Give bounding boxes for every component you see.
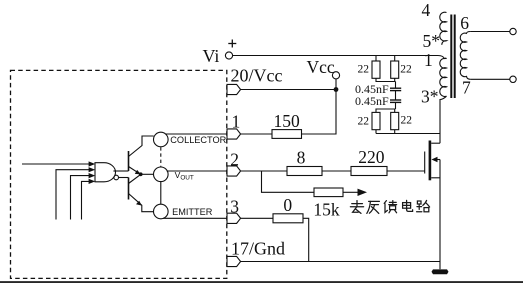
label 去反馈电路 (hand-drawn glyphs) (350, 200, 429, 213)
resistor 22 bottom-right (391, 112, 399, 129)
svg-text:5*: 5* (423, 31, 441, 51)
glyph 去 (350, 201, 363, 214)
glyph 电 (403, 200, 413, 211)
svg-text:8: 8 (297, 147, 306, 167)
terminal Vcc (332, 72, 339, 79)
resistor 0 (273, 214, 303, 223)
solid link vout-emitter (160, 182, 162, 205)
wire pin1 to 150 (241, 133, 272, 135)
wire R220 to gate (387, 170, 425, 172)
svg-text:3: 3 (230, 197, 239, 217)
wire drain up (439, 134, 441, 144)
MOSFET source tab (431, 177, 440, 179)
svg-text:0.45nF: 0.45nF (355, 94, 389, 108)
wire split above bottom pair (376, 109, 396, 112)
input arrow 1 (89, 161, 96, 166)
transformer T1 secondary winding (pins 6,7) (460, 32, 470, 80)
wire pin20 to Vcc node (241, 89, 336, 91)
pin 1 tag (227, 129, 241, 139)
wire secondary top (470, 31, 510, 33)
ground (432, 269, 449, 274)
svg-text:4: 4 (422, 0, 431, 20)
wire R8 to R220 (322, 170, 351, 172)
wire gate bubble output to Q2 base (119, 177, 129, 179)
MOSFET body arrow (431, 157, 437, 163)
wire emitter circle to pin3 (163, 217, 227, 219)
wire input 4 (82, 181, 90, 219)
pin 3 tag (227, 213, 241, 223)
wire stubs bottom (375, 130, 377, 134)
wire pin17 gnd rail (241, 261, 440, 263)
svg-text:Vcc: Vcc (307, 57, 335, 77)
wire source down to ground (439, 160, 441, 270)
wire Vcc drop (335, 79, 337, 90)
wire Vcc node down to 150 (302, 90, 337, 135)
svg-text:150: 150 (274, 111, 301, 131)
svg-text:2: 2 (230, 150, 239, 170)
svg-text:COLLECTOR: COLLECTOR (170, 135, 226, 145)
MOSFET drain tab (431, 142, 440, 144)
svg-text:7: 7 (462, 78, 471, 98)
transistor Q2 (129, 175, 154, 212)
wire to cap1 (395, 82, 397, 89)
terminal Vi (225, 52, 232, 59)
snubber: wire stubs top (375, 56, 377, 62)
wire Vi rail (233, 56, 445, 60)
capacitor C2 0.45nF (390, 99, 401, 101)
wire junction to VOUT circle (141, 173, 154, 175)
svg-text:22: 22 (358, 116, 370, 128)
feedback arrow (358, 189, 368, 196)
transformer core (450, 15, 452, 99)
EMITTER circle (154, 204, 169, 219)
wire snubber bottom rail (376, 133, 440, 135)
wire pin3 to R0 (241, 217, 273, 219)
svg-text:0: 0 (283, 195, 292, 215)
svg-text:22: 22 (401, 114, 413, 126)
glyph 路 (417, 200, 430, 211)
bottom page rule (0, 281, 523, 283)
pin 17/Gnd tag (227, 256, 241, 266)
pin 20/Vcc tag (227, 84, 241, 94)
transistor Q1 (129, 136, 154, 174)
glyph 反 (367, 201, 380, 213)
wire pin2 to R8 (241, 170, 287, 172)
plus sign (228, 43, 236, 45)
svg-text:Vi: Vi (203, 46, 220, 66)
input arrow 4 (89, 179, 96, 184)
svg-text:1: 1 (424, 50, 433, 70)
svg-text:6: 6 (460, 13, 469, 33)
resistor 22 top-right (391, 61, 399, 78)
wire cap2 down (395, 102, 397, 109)
node VOUT junction (139, 172, 143, 176)
resistor 220 (351, 167, 387, 176)
wire join below top pair (376, 78, 396, 81)
svg-text:3*: 3* (421, 87, 439, 107)
resistor 15k (314, 188, 343, 197)
svg-text:220: 220 (358, 147, 385, 167)
svg-text:22: 22 (358, 64, 370, 76)
wire R0 to gnd rail (303, 218, 309, 261)
MOSFET Q3 channel bar (429, 141, 432, 181)
resistor 22 top-left (372, 61, 380, 78)
terminal 6 (510, 28, 516, 34)
output bubble (114, 175, 119, 180)
svg-text:20/Vcc: 20/Vcc (231, 66, 283, 86)
wire vout circle to pin2 (167, 170, 227, 172)
resistor 150 (272, 130, 302, 139)
MOSFET Q3 gate line (424, 152, 426, 174)
svg-text:1: 1 (232, 112, 241, 132)
terminal 7 (510, 76, 516, 82)
wire cap1 to cap2 (395, 91, 397, 100)
wire branch to 15k (262, 171, 315, 192)
dashed box IC outline (11, 70, 227, 278)
wire input 3 (71, 176, 90, 220)
resistor 22 bottom-left (372, 112, 380, 129)
wire input 1 (22, 163, 90, 165)
node Vcc junction (334, 87, 339, 92)
COLLECTOR circle (154, 132, 169, 147)
pin 2 tag (227, 166, 241, 176)
resistor 8 (287, 167, 322, 176)
wire 15k to arrow (343, 191, 359, 193)
wire collector circle to pin1 (166, 133, 227, 135)
capacitor C1 0.45nF (390, 87, 401, 89)
input arrow 3 (89, 173, 96, 178)
dashed link collector-vout (160, 147, 162, 166)
transformer T1 primary upper winding (pins 4,5*) (440, 12, 447, 45)
NAND gate U1 (95, 163, 116, 182)
input arrow 2 (89, 167, 96, 172)
svg-text:15k: 15k (313, 199, 340, 219)
wire gate top output to Q1 base (113, 170, 128, 172)
VOUT circle (154, 167, 169, 182)
svg-text:22: 22 (400, 64, 412, 76)
svg-text:EMITTER: EMITTER (172, 207, 213, 217)
wire input 2 (56, 170, 90, 220)
svg-text:17/Gnd: 17/Gnd (231, 238, 285, 258)
glyph 馈 (384, 201, 396, 213)
wire secondary bottom (470, 78, 510, 80)
transformer T1 primary lower winding (pins 1,3*) (440, 58, 447, 133)
